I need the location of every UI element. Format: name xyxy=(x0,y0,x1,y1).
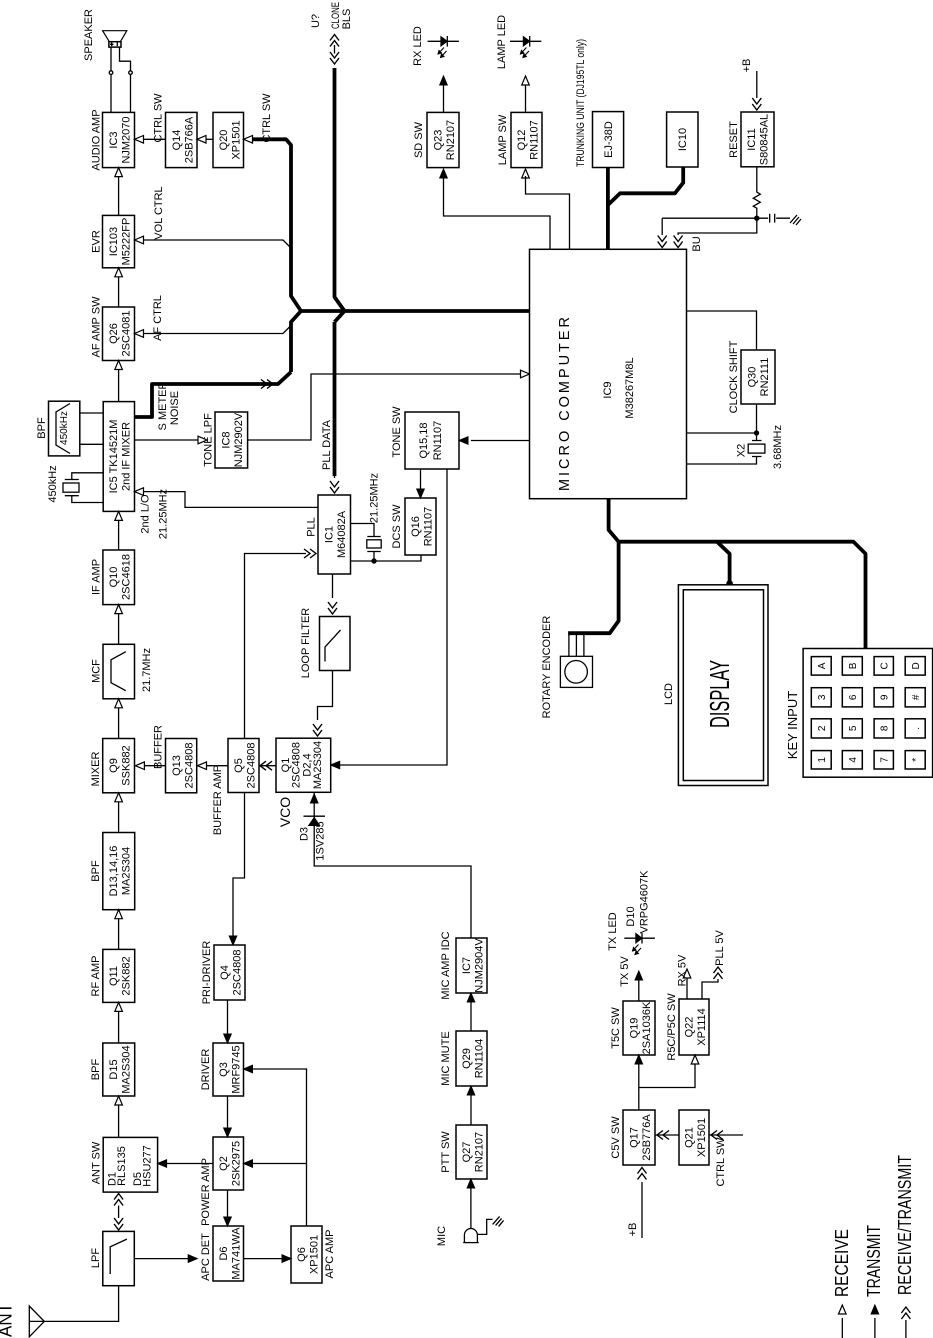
LAMP SW to micro xyxy=(522,169,530,178)
Q2 to ant SW xyxy=(167,1163,213,1165)
svg-text:MIC MUTE: MIC MUTE xyxy=(440,1031,452,1085)
svg-text:IC10: IC10 xyxy=(677,128,689,151)
svg-text:IC1: IC1 xyxy=(324,526,336,543)
svg-text:LCD: LCD xyxy=(663,683,675,705)
svg-text:RN2107: RN2107 xyxy=(474,1132,486,1172)
svg-text:MA2S304: MA2S304 xyxy=(121,847,133,895)
svg-text:4: 4 xyxy=(848,757,859,763)
svg-text:1: 1 xyxy=(817,757,828,763)
svg-text:SPEAKER: SPEAKER xyxy=(83,9,95,61)
svg-text:*: * xyxy=(911,758,922,762)
svg-text:BUFFER: BUFFER xyxy=(153,725,165,769)
Q5 to Q13 xyxy=(207,765,228,767)
key input keypad xyxy=(803,649,933,778)
svg-text:SSK882: SSK882 xyxy=(121,745,133,785)
ctrl trunk (thick) xyxy=(253,139,301,372)
ctrl to Q21 xyxy=(709,1134,743,1136)
power amp Q2 xyxy=(213,1137,244,1190)
svg-text:+B: +B xyxy=(627,1223,639,1237)
micro output thick tree xyxy=(568,499,865,649)
svg-text:M5222FP: M5222FP xyxy=(121,218,133,266)
svg-text:Q11: Q11 xyxy=(108,966,120,986)
svg-text:Q4: Q4 xyxy=(219,965,231,980)
svg-text:TRUNKING UNIT (DJ195TL only): TRUNKING UNIT (DJ195TL only) xyxy=(575,39,587,167)
svg-text:PTT SW: PTT SW xyxy=(440,1131,452,1173)
svg-text:2SC4808: 2SC4808 xyxy=(246,743,258,789)
svg-text:Q9: Q9 xyxy=(108,758,120,773)
svg-text:CTRL SW: CTRL SW xyxy=(153,93,165,143)
svg-text:NJM2904V: NJM2904V xyxy=(474,938,486,993)
APC amp Q6 xyxy=(291,1226,322,1283)
svg-text:NOISE: NOISE xyxy=(169,391,181,425)
loop filter xyxy=(332,574,334,598)
mixer Q9 xyxy=(103,739,135,793)
svg-text:XP1114: XP1114 xyxy=(696,1008,708,1046)
C5V SW Q17 xyxy=(623,1110,655,1165)
trunking unit EJ-38D xyxy=(593,112,624,168)
thick wires EJ-38D / IC10 to micro xyxy=(608,167,683,249)
svg-text:BLS: BLS xyxy=(341,9,353,30)
svg-text:D6: D6 xyxy=(218,1246,230,1260)
svg-text:2SK2975: 2SK2975 xyxy=(231,1141,243,1186)
svg-text:S80845AL: S80845AL xyxy=(759,114,771,165)
svg-text:Q6: Q6 xyxy=(296,1247,308,1262)
svg-text:XP1501: XP1501 xyxy=(696,1118,708,1157)
ANT xyxy=(29,1306,44,1337)
RF amp Q11 xyxy=(103,949,135,1002)
Q13 to Q9 xyxy=(145,765,166,767)
svg-text:IC5 TK14521M: IC5 TK14521M xyxy=(108,420,120,494)
svg-text:RF AMP: RF AMP xyxy=(90,956,102,997)
svg-text:21.7MHz: 21.7MHz xyxy=(141,648,153,692)
svg-text:LPF: LPF xyxy=(90,1248,102,1268)
svg-text:.: . xyxy=(911,727,922,730)
2nd L/O line xyxy=(144,492,318,508)
crystal 450kHz xyxy=(63,473,103,503)
svg-text:ANT: ANT xyxy=(0,1303,16,1337)
varactor D3 xyxy=(314,792,471,938)
VCO to buffer Q5 xyxy=(259,765,276,767)
svg-text:RLS135: RLS135 xyxy=(116,1146,128,1186)
svg-text:KEY INPUT: KEY INPUT xyxy=(785,691,800,759)
svg-text:MA741WA: MA741WA xyxy=(231,1227,243,1280)
svg-text:2SC4808: 2SC4808 xyxy=(232,950,244,996)
svg-text:PLL DATA: PLL DATA xyxy=(321,419,333,470)
PTT SW Q27 xyxy=(456,1125,487,1179)
svg-text:MA2S304: MA2S304 xyxy=(121,1045,133,1093)
svg-text:IC7: IC7 xyxy=(461,957,473,974)
svg-text:XP1501: XP1501 xyxy=(309,1235,321,1274)
svg-text:TX LED: TX LED xyxy=(607,912,619,951)
svg-text:RN1107: RN1107 xyxy=(529,120,541,160)
LPF xyxy=(103,1231,135,1285)
svg-text:Q22: Q22 xyxy=(684,1017,696,1038)
svg-text:21.25MHz: 21.25MHz xyxy=(158,489,170,539)
svg-text:Q5: Q5 xyxy=(233,758,245,773)
svg-text:LAMP SW: LAMP SW xyxy=(497,114,509,165)
svg-text:PLL 5V: PLL 5V xyxy=(714,930,726,966)
svg-text:MIXER: MIXER xyxy=(90,752,102,787)
Q6 feedback to Q3/Q2 xyxy=(253,1069,307,1226)
svg-text:IC9: IC9 xyxy=(602,381,614,398)
svg-text:Q15,18: Q15,18 xyxy=(418,422,430,458)
Q21 to Q17 xyxy=(655,1134,679,1136)
svg-text:RN2107: RN2107 xyxy=(445,120,457,160)
speaker jack wires xyxy=(110,47,112,112)
svg-text:6: 6 xyxy=(848,694,859,700)
LPF to APC det xyxy=(134,1258,188,1260)
svg-text:Q29: Q29 xyxy=(461,1048,473,1069)
svg-text:T5C SW: T5C SW xyxy=(610,1007,622,1049)
svg-text:Q23: Q23 xyxy=(433,130,445,151)
svg-text:LOOP FILTER: LOOP FILTER xyxy=(300,608,312,679)
svg-text:SD SW: SD SW xyxy=(413,121,425,158)
svg-text:9: 9 xyxy=(880,694,891,700)
VCO box Q1 D2,4 xyxy=(276,738,331,792)
svg-text:POWER AMP: POWER AMP xyxy=(200,1158,212,1226)
svg-text:Q26: Q26 xyxy=(108,323,120,344)
svg-text:450kHz: 450kHz xyxy=(47,465,59,502)
VOL CTRL tap xyxy=(144,240,291,248)
svg-text:Q14: Q14 xyxy=(171,130,183,151)
svg-text:APC DET: APC DET xyxy=(200,1233,212,1281)
Q5 to pri-driver Q4 xyxy=(233,793,245,937)
svg-text:2SB776A: 2SB776A xyxy=(641,1114,653,1161)
svg-text:2SB766A: 2SB766A xyxy=(184,116,196,163)
svg-text:1SV285: 1SV285 xyxy=(315,821,327,860)
SD SW Q23 xyxy=(427,112,459,167)
BPF D13,14,16 xyxy=(103,833,135,910)
svg-text:U?: U? xyxy=(310,14,322,28)
svg-text:Q12: Q12 xyxy=(516,130,528,151)
svg-text:IC8: IC8 xyxy=(221,431,233,448)
svg-text:Q19: Q19 xyxy=(629,1018,641,1039)
+B to Q17 xyxy=(641,1182,643,1238)
svg-text:Q20: Q20 xyxy=(218,130,230,151)
buffer Q5 xyxy=(228,739,259,793)
mic xyxy=(470,1188,472,1229)
svg-text:PRI-DRIVER: PRI-DRIVER xyxy=(201,941,213,1005)
svg-text:ANT SW: ANT SW xyxy=(91,1141,103,1184)
svg-text:3: 3 xyxy=(817,694,828,700)
svg-text:MA2S304: MA2S304 xyxy=(312,741,324,789)
svg-text:D: D xyxy=(911,662,922,669)
svg-text:7: 7 xyxy=(880,757,891,763)
svg-text:BPF: BPF xyxy=(90,1059,102,1081)
svg-text:LAMP LED: LAMP LED xyxy=(496,15,508,69)
svg-text:CLOCK SHIFT: CLOCK SHIFT xyxy=(728,340,740,413)
svg-text:2SC4618: 2SC4618 xyxy=(121,554,133,600)
svg-text:Q2: Q2 xyxy=(218,1156,230,1171)
svg-text:450kHz: 450kHz xyxy=(59,411,70,445)
clone / PLL data trunk xyxy=(335,68,345,476)
svg-text:B: B xyxy=(848,662,859,669)
svg-text:RN1107: RN1107 xyxy=(432,421,444,461)
svg-text:R5C/P5C SW: R5C/P5C SW xyxy=(666,993,678,1061)
reset IC11 xyxy=(741,112,774,167)
AF CTRL tap xyxy=(144,326,291,334)
svg-text:Q3: Q3 xyxy=(218,1062,230,1077)
svg-text:2nd IF MIXER: 2nd IF MIXER xyxy=(121,422,133,491)
svg-text:D15: D15 xyxy=(108,1059,120,1079)
tone SW to VCO xyxy=(340,469,447,765)
svg-text:HSU277: HSU277 xyxy=(142,1145,154,1187)
svg-text:Q30: Q30 xyxy=(747,367,759,388)
SD SW to micro xyxy=(440,169,448,178)
Q17 output to Q19 / Q22 xyxy=(639,1064,695,1110)
svg-text:VCO: VCO xyxy=(277,797,293,827)
svg-text:Q13: Q13 xyxy=(171,755,183,776)
svg-text:APC AMP: APC AMP xyxy=(324,1230,336,1279)
AF amp SW Q26 xyxy=(103,307,135,361)
svg-text:MRF9745: MRF9745 xyxy=(231,1045,243,1093)
S meter thick wire xyxy=(135,372,292,417)
svg-text:TONE SW: TONE SW xyxy=(391,406,403,458)
svg-text:DRIVER: DRIVER xyxy=(200,1049,212,1091)
ant SW D1 D5 xyxy=(103,1137,157,1192)
svg-text:MIC AMP IDC: MIC AMP IDC xyxy=(440,931,452,999)
svg-text:D13,14,16: D13,14,16 xyxy=(108,846,120,897)
BPF 450kHz xyxy=(49,401,80,456)
svg-text:TRANSMIT: TRANSMIT xyxy=(864,1225,884,1297)
main bus to micro xyxy=(299,309,530,313)
svg-text:RX LED: RX LED xyxy=(412,26,424,66)
svg-text:D3: D3 xyxy=(299,827,311,841)
svg-text:8: 8 xyxy=(880,725,891,731)
wire Q14 to IC3 xyxy=(144,138,166,140)
svg-text:BUFFER AMP: BUFFER AMP xyxy=(212,765,224,835)
svg-text:PLL: PLL xyxy=(306,517,318,537)
svg-text:VRPG4607K: VRPG4607K xyxy=(639,870,651,934)
speaker SP xyxy=(103,31,127,47)
svg-text:TX 5V: TX 5V xyxy=(619,956,631,987)
TONE SW Q15,18 xyxy=(405,412,459,469)
svg-text:BPF: BPF xyxy=(36,417,48,439)
svg-text:Q17: Q17 xyxy=(629,1127,641,1148)
svg-text:RX 5V: RX 5V xyxy=(677,954,689,986)
svg-text:DISPLAY: DISPLAY xyxy=(704,660,735,728)
svg-text:CTRL SW: CTRL SW xyxy=(261,93,273,143)
svg-text:A: A xyxy=(817,662,828,669)
ctrl SW Q14 xyxy=(166,112,198,167)
svg-text:IF AMP: IF AMP xyxy=(91,559,103,595)
svg-text:MCF: MCF xyxy=(91,659,103,683)
svg-text:AF AMP SW: AF AMP SW xyxy=(91,296,103,358)
svg-text:S METER: S METER xyxy=(157,382,169,431)
svg-text:RECEIVE: RECEIVE xyxy=(832,1229,852,1297)
crystal 21.25MHz xyxy=(351,524,422,562)
APC det D6 xyxy=(213,1226,244,1281)
svg-text:BU: BU xyxy=(691,236,703,251)
svg-text:Q10: Q10 xyxy=(108,567,120,588)
micro to tone SW xyxy=(471,440,530,442)
MCF xyxy=(103,644,135,699)
tone SW to DCS SW xyxy=(420,469,422,489)
svg-text:RESET: RESET xyxy=(728,121,740,158)
reset RC network xyxy=(753,167,760,218)
wire ctrl trunk to Q20 xyxy=(253,138,256,140)
svg-text:3.68MHz: 3.68MHz xyxy=(772,425,784,469)
svg-text:2SC4808: 2SC4808 xyxy=(184,743,196,789)
T5C SW Q19 xyxy=(623,1001,655,1055)
svg-text:#: # xyxy=(911,694,922,700)
svg-text:M38267M8L: M38267M8L xyxy=(624,357,636,418)
svg-text:DCS SW: DCS SW xyxy=(391,504,403,549)
svg-text:IC11: IC11 xyxy=(746,128,758,150)
rotary encoder xyxy=(569,634,584,657)
svg-text:EJ-38D: EJ-38D xyxy=(603,121,615,158)
cap + ground xyxy=(757,214,790,223)
DCS SW Q16 xyxy=(405,498,436,555)
Q21 xyxy=(679,1110,709,1165)
IF amp Q10 xyxy=(103,550,135,605)
crystal X2 xyxy=(687,404,762,464)
svg-text:AUDIO AMP: AUDIO AMP xyxy=(91,109,103,170)
svg-text:Q16: Q16 xyxy=(410,516,422,537)
micro computer IC9 xyxy=(530,249,687,498)
TONE LPF IC8 xyxy=(215,412,248,468)
svg-text:2SK882: 2SK882 xyxy=(121,956,133,995)
driver Q3 xyxy=(213,1043,244,1096)
svg-text:RECEIVE/TRANSMIT: RECEIVE/TRANSMIT xyxy=(895,1155,915,1295)
buffer Q13 xyxy=(166,739,197,793)
mic amp IDC IC7 xyxy=(456,938,487,993)
svg-text:BPF: BPF xyxy=(90,860,102,882)
svg-text:VOL CTRL: VOL CTRL xyxy=(153,186,165,239)
svg-text:2SA1036K: 2SA1036K xyxy=(641,1001,653,1054)
svg-text:MICRO COMPUTER: MICRO COMPUTER xyxy=(557,317,573,491)
svg-text:AF CTRL: AF CTRL xyxy=(152,295,164,341)
svg-text:Q27: Q27 xyxy=(461,1142,473,1163)
chain wires with arrows (bottom to top) xyxy=(118,1206,120,1219)
pri-driver Q4 xyxy=(214,945,245,1000)
R5C/P5C SW Q22 xyxy=(679,999,709,1055)
svg-text:M64082A: M64082A xyxy=(336,510,348,558)
svg-text:XP1501: XP1501 xyxy=(231,120,243,159)
svg-text:C5V SW: C5V SW xyxy=(610,1116,622,1159)
svg-text:2SC4081: 2SC4081 xyxy=(121,311,133,357)
svg-text:21.25MHz: 21.25MHz xyxy=(369,473,381,523)
svg-text:RN2111: RN2111 xyxy=(759,358,771,397)
mic mute Q29 xyxy=(456,1031,487,1086)
EVR IC103 xyxy=(103,215,135,267)
audio amp IC3 xyxy=(103,112,135,167)
svg-text:RN1104: RN1104 xyxy=(474,1039,486,1079)
Q5 feedback to PLL xyxy=(245,554,307,739)
svg-text:EVR: EVR xyxy=(91,230,103,253)
svg-text:2: 2 xyxy=(817,725,828,731)
svg-text:ROTARY ENCODER: ROTARY ENCODER xyxy=(541,616,553,719)
svg-text:C: C xyxy=(880,662,891,669)
IC10 xyxy=(667,112,698,167)
svg-text:5: 5 xyxy=(848,725,859,731)
2nd IF mixer IC5 xyxy=(103,402,134,512)
svg-text:D10: D10 xyxy=(625,906,637,926)
LCD display xyxy=(678,585,768,786)
clock shift Q30 xyxy=(741,350,775,404)
svg-text:IC3: IC3 xyxy=(108,131,120,148)
PLL IC1 xyxy=(318,495,351,574)
LAMP SW Q12 xyxy=(511,112,542,167)
svg-text:MIC: MIC xyxy=(436,1226,448,1246)
wire Q20 to Q14 xyxy=(207,138,214,140)
svg-text:+B: +B xyxy=(741,59,753,73)
svg-text:Q21: Q21 xyxy=(684,1127,696,1148)
BPF D15 xyxy=(103,1043,135,1096)
svg-text:RN1107: RN1107 xyxy=(423,507,435,547)
svg-text:IC103: IC103 xyxy=(108,227,120,256)
svg-text:CTRL SW: CTRL SW xyxy=(715,1137,727,1187)
svg-text:2nd L/O: 2nd L/O xyxy=(140,494,152,534)
Q20 xyxy=(213,112,244,167)
svg-text:X2: X2 xyxy=(736,444,748,457)
svg-text:NJM2902V: NJM2902V xyxy=(233,412,245,467)
svg-text:NJM2070: NJM2070 xyxy=(121,116,133,163)
